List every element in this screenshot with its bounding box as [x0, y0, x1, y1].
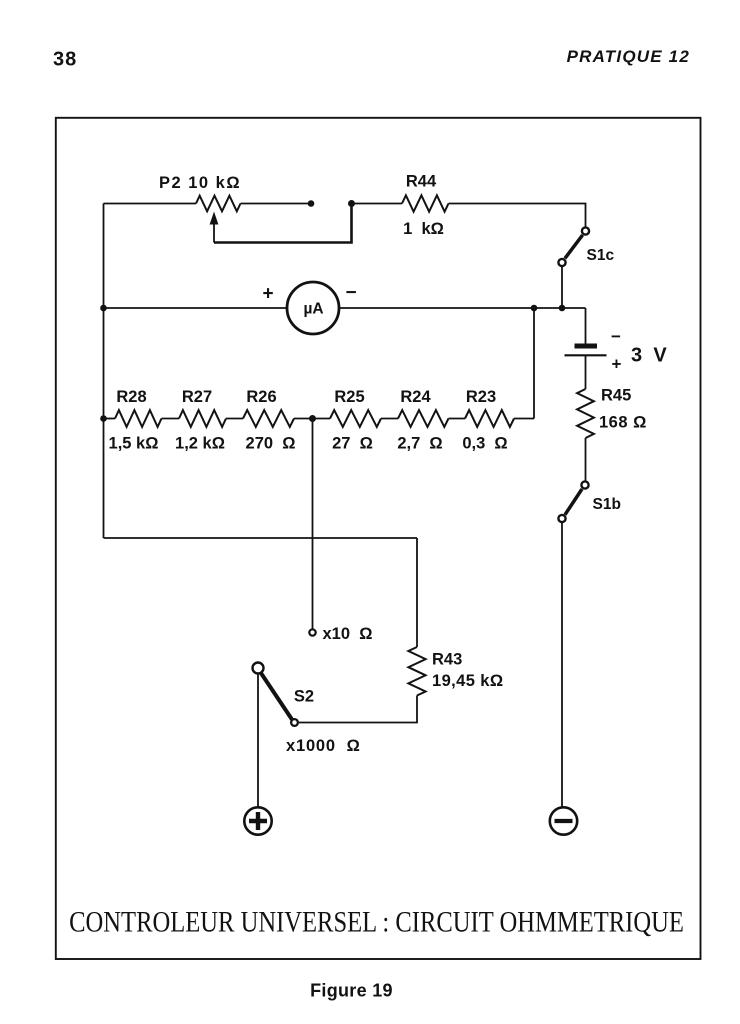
node open contact — [308, 200, 315, 207]
svg-text:19,45 kΩ: 19,45 kΩ — [432, 672, 503, 690]
svg-text:3: 3 — [631, 345, 642, 367]
label 1 kΩ — [403, 220, 444, 238]
svg-text:x10 Ω: x10 Ω — [323, 625, 373, 643]
label S1b — [593, 496, 621, 513]
resistor R44 — [402, 195, 449, 211]
wire S1b to minus terminal — [561, 523, 563, 807]
label R28 — [116, 388, 146, 406]
wire bus to R43 — [416, 538, 418, 647]
label R26 — [246, 388, 276, 406]
label battery minus — [611, 327, 621, 346]
wire R24-R23 — [449, 418, 466, 420]
switch S1b — [558, 481, 588, 522]
label R44 — [406, 173, 437, 191]
svg-text:R27: R27 — [182, 388, 212, 406]
terminal x10 tap — [309, 629, 315, 635]
svg-text:R45: R45 — [601, 387, 631, 405]
label meter minus — [345, 283, 356, 304]
svg-text:R26: R26 — [246, 388, 276, 406]
wire meter bus left — [104, 307, 287, 309]
label R23 — [466, 388, 496, 406]
label 1,2 kΩ — [175, 435, 225, 453]
svg-text:27 Ω: 27 Ω — [332, 435, 373, 453]
label S2 — [294, 688, 314, 706]
resistor R25 — [330, 410, 381, 427]
svg-text:R43: R43 — [432, 651, 462, 669]
label R25 — [334, 388, 364, 406]
label 2,7 Ω — [397, 435, 442, 453]
resistor R43 — [408, 647, 425, 696]
wire R25-R24 — [381, 418, 398, 420]
wire row lead left — [104, 418, 116, 420]
label x10 Ω — [323, 625, 373, 643]
label 270 Ω — [246, 435, 296, 453]
node junction row left — [100, 415, 107, 422]
svg-text:270 Ω: 270 Ω — [246, 435, 296, 453]
svg-text:−: − — [345, 283, 356, 304]
wire row lead right — [514, 418, 534, 420]
resistor R26 — [243, 410, 294, 427]
node junction x10 tap — [309, 415, 316, 422]
wire pot output to contact — [241, 203, 312, 205]
node junction S1c bus — [559, 305, 566, 312]
switch S1c — [558, 227, 589, 266]
label 1,5 kΩ — [109, 435, 159, 453]
svg-text:Figure 19: Figure 19 — [310, 981, 393, 1001]
svg-text:x1000 Ω: x1000 Ω — [286, 737, 361, 755]
header PRATIQUE 12 — [567, 47, 690, 66]
wire R26-R25 — [294, 418, 330, 420]
resistor R27 — [179, 410, 226, 427]
wire R28-R27 — [162, 418, 180, 420]
wire S1c to meter bus — [561, 267, 563, 308]
label x1000 Ω — [286, 737, 361, 755]
battery BT1 3V — [565, 344, 607, 356]
svg-text:1 kΩ: 1 kΩ — [403, 220, 444, 238]
svg-text:R44: R44 — [406, 173, 437, 191]
potentiometer P2 — [196, 196, 241, 243]
svg-text:1,5 kΩ: 1,5 kΩ — [109, 435, 159, 453]
resistor R23 — [465, 410, 514, 427]
wire R45 to S1b — [585, 438, 587, 481]
node junction left bus meter — [100, 305, 107, 312]
wire row riser — [533, 308, 535, 419]
label R43 — [432, 651, 462, 669]
wire R27-R26 — [226, 418, 243, 420]
label 168 Ω — [599, 414, 647, 432]
wire meter bus to battery — [585, 308, 587, 344]
label 0,3 Ω — [462, 435, 507, 453]
svg-text:R25: R25 — [334, 388, 364, 406]
svg-text:2,7 Ω: 2,7 Ω — [397, 435, 442, 453]
svg-text:R28: R28 — [116, 388, 146, 406]
label R27 — [182, 388, 212, 406]
terminal plus output — [244, 807, 271, 834]
wire meter bus right — [340, 307, 586, 309]
svg-text:PRATIQUE 12: PRATIQUE 12 — [567, 47, 690, 66]
label 19,45 kΩ — [432, 672, 503, 690]
svg-text:R23: R23 — [466, 388, 496, 406]
svg-text:CONTROLEUR UNIVERSEL : CIRCUIT: CONTROLEUR UNIVERSEL : CIRCUIT OHMMETRIQ… — [69, 905, 684, 938]
svg-text:168 Ω: 168 Ω — [599, 414, 647, 432]
wire top bus left segment — [104, 203, 197, 205]
label 27 Ω — [332, 435, 373, 453]
switch S2 — [253, 663, 298, 726]
resistor R24 — [398, 410, 449, 427]
svg-text:+: + — [612, 355, 622, 374]
wire bottom bus — [104, 537, 418, 539]
node junction wiper-R44 — [348, 200, 355, 207]
svg-text:0,3 Ω: 0,3 Ω — [462, 435, 507, 453]
label R45 — [601, 387, 631, 405]
label S1c — [587, 247, 615, 264]
wire x10 lead — [312, 419, 314, 629]
wire S2 pole to plus terminal — [257, 674, 259, 808]
svg-text:+: + — [262, 284, 273, 305]
label battery plus — [612, 355, 622, 374]
svg-text:V: V — [653, 345, 667, 367]
meter U1 µA — [287, 282, 339, 334]
wire battery to R45 — [585, 355, 587, 389]
wire junction to R44 — [352, 203, 403, 205]
label R24 — [400, 388, 431, 406]
wire left bus vertical — [103, 204, 105, 539]
svg-text:−: − — [611, 327, 621, 346]
resistor R45 — [577, 389, 594, 438]
terminal minus output — [550, 807, 577, 834]
svg-text:S2: S2 — [294, 688, 314, 706]
caption CONTROLEUR UNIVERSEL : CIRCUIT OHMMETRIQUE — [69, 905, 684, 938]
label meter plus — [262, 284, 273, 305]
node junction row riser — [531, 305, 538, 312]
svg-text:R24: R24 — [400, 388, 431, 406]
caption Figure 19 — [310, 981, 393, 1001]
svg-text:P2 10 kΩ: P2 10 kΩ — [159, 174, 241, 192]
svg-text:38: 38 — [53, 49, 77, 71]
svg-text:S1c: S1c — [587, 247, 615, 264]
svg-text:µA: µA — [303, 301, 323, 318]
svg-text:S1b: S1b — [593, 496, 621, 513]
page number 38 — [53, 49, 77, 71]
svg-text:1,2 kΩ: 1,2 kΩ — [175, 435, 225, 453]
label battery 3 V — [631, 345, 667, 367]
label P2 10 kΩ — [159, 174, 241, 192]
wire R44 to S1c — [449, 204, 586, 227]
resistor R28 — [115, 410, 162, 427]
wire R43 to S2 throw — [299, 696, 417, 723]
wire wiper return — [214, 204, 352, 243]
